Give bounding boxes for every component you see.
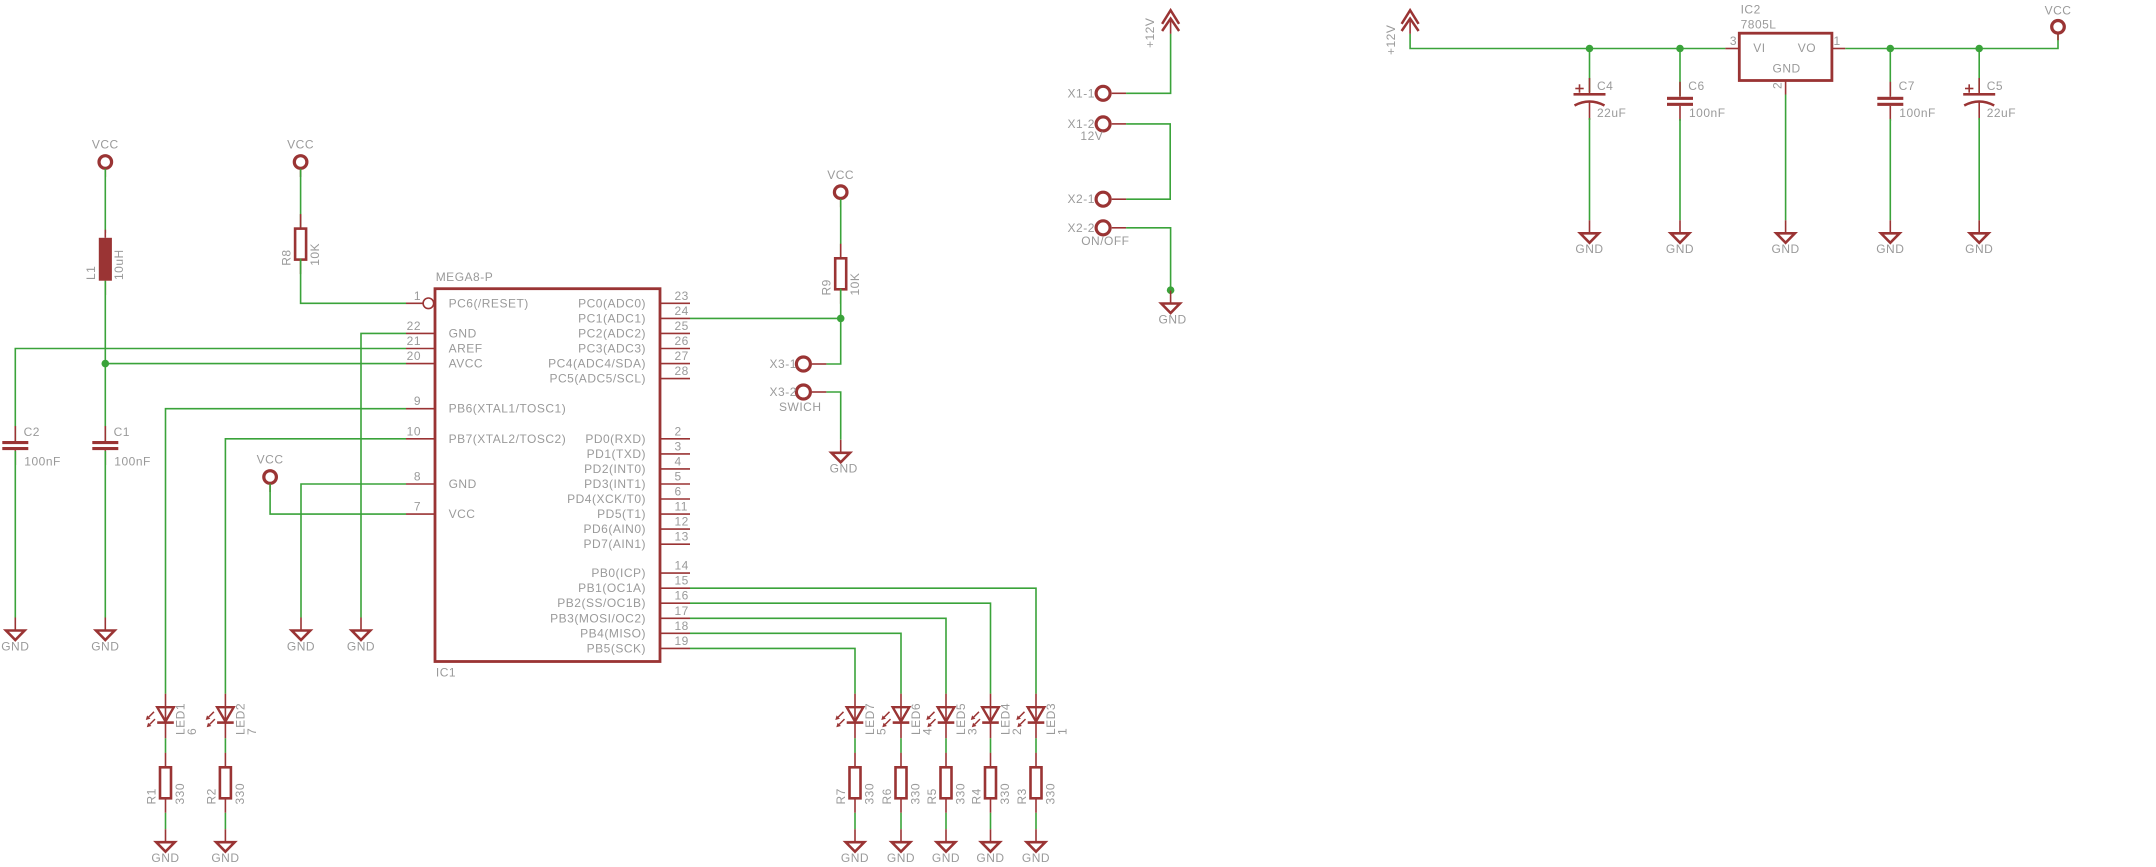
wire R5 to GND [945, 813, 947, 829]
svg-text:C1: C1 [114, 425, 130, 439]
svg-text:R4: R4 [970, 788, 984, 804]
capacitor C4 (polarized) [1574, 78, 1627, 120]
svg-text:7: 7 [414, 500, 421, 514]
svg-text:VI: VI [1753, 41, 1765, 55]
wire R6 to GND [900, 813, 902, 829]
wire VCC to R9 [840, 199, 842, 258]
wire L1 to C1 and AVCC node [104, 281, 106, 441]
capacitor C5 (polarized) [1963, 78, 2016, 120]
svg-text:L1: L1 [84, 266, 98, 280]
svg-text:VCC: VCC [827, 168, 854, 182]
svg-text:8: 8 [414, 470, 421, 484]
svg-text:5: 5 [875, 728, 889, 735]
svg-text:100nF: 100nF [1899, 106, 1936, 120]
svg-text:3: 3 [675, 439, 682, 453]
svg-text:C2: C2 [24, 425, 40, 439]
svg-text:3: 3 [966, 728, 980, 735]
svg-text:PB6(XTAL1/TOSC1): PB6(XTAL1/TOSC1) [449, 402, 567, 416]
capacitor C7 [1877, 79, 1936, 121]
svg-text:GND: GND [830, 462, 858, 476]
ground under C7 [1876, 220, 1904, 256]
wire VCC to L1 [104, 169, 106, 233]
svg-text:PB5(SCK): PB5(SCK) [587, 641, 646, 655]
wire C2 to GND [14, 451, 16, 618]
svg-text:10: 10 [407, 424, 421, 438]
svg-text:330: 330 [863, 783, 877, 805]
svg-text:22uF: 22uF [1597, 106, 1626, 120]
ground under C2 [1, 618, 29, 654]
ground under R7 [841, 829, 869, 865]
svg-text:20: 20 [407, 349, 421, 363]
svg-text:GND: GND [287, 639, 315, 653]
svg-text:10uH: 10uH [112, 249, 126, 280]
node junction C5 [1975, 45, 1983, 53]
resistor R8 [280, 214, 323, 274]
svg-text:PC3(ADC3): PC3(ADC3) [578, 342, 646, 356]
svg-text:IC2: IC2 [1741, 2, 1761, 16]
node junction C7 [1887, 45, 1895, 53]
svg-text:AVCC: AVCC [449, 357, 483, 371]
supply +12V (X1-1 net) [1143, 10, 1179, 48]
svg-text:GND: GND [1772, 242, 1800, 256]
svg-text:X1-1: X1-1 [1068, 86, 1095, 100]
wire rail to C6 [1679, 49, 1681, 97]
supply VCC (to IC1 pin 7) [257, 453, 284, 492]
svg-text:GND: GND [1876, 242, 1904, 256]
connector pad X3-2 [770, 385, 827, 399]
IC1 pin 25 PC2(ADC2) [578, 319, 690, 341]
resistor R1 [145, 753, 188, 813]
svg-text:PC0(ADC0): PC0(ADC0) [578, 296, 646, 310]
IC2 pin 1 VO [1832, 34, 1845, 49]
wire rail to C5 [1978, 49, 1980, 93]
wire IC2 VO to VCC [1845, 33, 2058, 48]
resistor R6 [880, 753, 923, 813]
wire X1-1 to +12V [1126, 34, 1171, 93]
supply VCC (regulator output) [2045, 4, 2072, 41]
node junction R9/X3-1/PC1 [837, 315, 845, 323]
wire IC1 pin 18 to LED6 [690, 633, 901, 693]
voltage regulator IC2 7805L [1739, 2, 1832, 80]
wire IC1 pin 16 to LED4 [690, 603, 991, 694]
IC1 pin 8 GND [406, 470, 477, 492]
svg-text:25: 25 [675, 319, 689, 333]
IC1 pin 15 PB1(OC1A) [578, 574, 690, 596]
IC1 pin 7 VCC [406, 500, 475, 521]
wire C1 to GND [104, 451, 106, 618]
connector pad X3-1 [770, 357, 827, 371]
svg-text:17: 17 [675, 604, 689, 618]
ground under X3-2 net [830, 440, 858, 476]
svg-text:PD0(RXD): PD0(RXD) [585, 432, 646, 446]
svg-text:330: 330 [954, 783, 968, 805]
svg-text:6: 6 [675, 485, 682, 499]
svg-text:GND: GND [1575, 242, 1603, 256]
svg-text:PC1(ADC1): PC1(ADC1) [578, 311, 646, 325]
svg-text:MEGA8-P: MEGA8-P [436, 270, 494, 284]
IC1 pin 18 PB4(MISO) [580, 619, 690, 641]
svg-text:21: 21 [407, 334, 421, 348]
svg-text:18: 18 [675, 619, 689, 633]
wire IC1 pin 8 to GND [301, 484, 406, 618]
IC1 pin 13 PD7(AIN1) [583, 530, 690, 552]
ground under R2 [211, 829, 239, 865]
svg-text:X2-1: X2-1 [1068, 192, 1095, 206]
LED LED2 [206, 694, 259, 739]
wire R7 to GND [854, 813, 856, 829]
svg-text:PB4(MISO): PB4(MISO) [580, 626, 646, 640]
svg-text:VCC: VCC [449, 507, 476, 521]
LED LED5 [926, 694, 979, 739]
wire VCC to R8 [300, 169, 302, 229]
node junction AVCC [102, 360, 110, 368]
IC1 pin 23 PC0(ADC0) [578, 289, 690, 311]
IC1 pin 22 GND [406, 319, 477, 341]
IC1 pin 19 PB5(SCK) [587, 634, 690, 656]
connector pad X2-2 [1068, 221, 1127, 235]
svg-text:330: 330 [998, 783, 1012, 805]
IC1 pin 12 PD6(AIN0) [583, 515, 690, 537]
wire IC1 pin 10 to LED2 [225, 439, 406, 694]
ground under R3 [1022, 829, 1050, 865]
wire LED3 to R3 [1035, 738, 1037, 753]
svg-text:SWICH: SWICH [779, 400, 822, 414]
svg-text:PD2(INT0): PD2(INT0) [584, 462, 646, 476]
connector pad X2-1 [1068, 192, 1127, 206]
svg-text:C4: C4 [1597, 79, 1613, 93]
svg-text:28: 28 [675, 364, 689, 378]
supply VCC (to L1) [92, 138, 119, 177]
svg-text:PB2(SS/OC1B): PB2(SS/OC1B) [557, 596, 646, 610]
svg-text:VCC: VCC [2045, 4, 2072, 18]
resistor R4 [970, 753, 1013, 813]
svg-text:GND: GND [841, 851, 869, 865]
svg-text:VCC: VCC [257, 453, 284, 467]
svg-text:2: 2 [1010, 728, 1024, 735]
svg-text:330: 330 [173, 783, 187, 805]
capacitor C6 [1667, 79, 1726, 121]
svg-text:PB3(MOSI/OC2): PB3(MOSI/OC2) [550, 611, 646, 625]
svg-text:PD4(XCK/T0): PD4(XCK/T0) [567, 492, 646, 506]
svg-text:27: 27 [675, 349, 689, 363]
svg-text:PC6(/RESET): PC6(/RESET) [449, 296, 529, 310]
IC1 pin 16 PB2(SS/OC1B) [557, 589, 690, 611]
svg-text:GND: GND [1773, 61, 1801, 75]
svg-text:VCC: VCC [92, 138, 119, 152]
svg-text:14: 14 [675, 559, 689, 573]
svg-text:PD5(T1): PD5(T1) [597, 507, 646, 521]
IC1 pin 2 PD0(RXD) [585, 424, 690, 446]
inductor L1 [84, 230, 126, 295]
svg-text:3: 3 [1730, 34, 1737, 48]
ground under IC1 pin 22 net [347, 618, 375, 654]
wire +12V to IC2 VI [1410, 34, 1725, 49]
svg-text:R7: R7 [834, 788, 848, 804]
svg-text:X2-2: X2-2 [1068, 221, 1095, 235]
wire IC1 pin 19 to LED7 [690, 648, 855, 693]
ground under R1 [151, 829, 179, 865]
wire IC1 pin 9 to LED1 [166, 409, 407, 694]
wire R4 to GND [990, 813, 992, 829]
svg-text:7: 7 [245, 728, 259, 735]
svg-text:R6: R6 [880, 788, 894, 804]
wire LED2 to R2 [224, 738, 226, 753]
svg-text:15: 15 [675, 574, 689, 588]
svg-text:X3-1: X3-1 [770, 357, 797, 371]
wire X2-2 to GND [1126, 228, 1171, 290]
supply VCC (to R8) [287, 138, 314, 177]
svg-text:24: 24 [675, 304, 689, 318]
svg-text:2: 2 [1771, 82, 1785, 89]
ground under C5 [1965, 220, 1993, 256]
wire IC1 pin 15 to LED3 [690, 588, 1036, 694]
wire LED6 to R6 [900, 738, 902, 753]
svg-text:C7: C7 [1899, 79, 1915, 93]
IC1 pin 1 PC6(/RESET) [406, 289, 529, 311]
IC2 pin 3 VI [1725, 34, 1739, 49]
wire AVCC node to IC1 pin 20 [105, 363, 406, 365]
wire X3-2 to GND [826, 392, 840, 440]
IC1 pin 21 AREF [406, 334, 483, 356]
svg-text:PD7(AIN1): PD7(AIN1) [583, 537, 646, 551]
svg-text:R3: R3 [1015, 788, 1029, 804]
svg-text:PC4(ADC4/SDA): PC4(ADC4/SDA) [548, 357, 646, 371]
IC1 pin 9 PB6(XTAL1/TOSC1) [406, 394, 566, 416]
svg-text:ON/OFF: ON/OFF [1081, 234, 1129, 248]
svg-text:9: 9 [414, 394, 421, 408]
svg-text:GND: GND [1, 639, 29, 653]
wire C7 to GND [1889, 119, 1891, 220]
svg-text:+12V: +12V [1143, 18, 1157, 48]
svg-text:26: 26 [675, 334, 689, 348]
svg-text:4: 4 [921, 728, 935, 735]
svg-text:GND: GND [211, 851, 239, 865]
svg-text:22uF: 22uF [1987, 106, 2016, 120]
resistor R3 [1015, 753, 1058, 813]
LED LED7 [835, 694, 888, 739]
svg-text:10K: 10K [308, 243, 322, 266]
wire R9 bottom to X3-1 [826, 289, 840, 364]
svg-text:GND: GND [976, 851, 1004, 865]
supply +12V (regulator input) [1384, 10, 1419, 55]
IC1 pin 28 PC5(ADC5/SCL) [549, 364, 690, 386]
connector pad X1-1 [1068, 86, 1127, 100]
ground under C1 [91, 618, 119, 654]
svg-text:GND: GND [449, 326, 477, 340]
wire rail to C4 [1589, 49, 1591, 93]
ground under IC1 pin 8 net [287, 618, 315, 654]
IC1 pin 17 PB3(MOSI/OC2) [550, 604, 690, 626]
wire R8 to IC1 pin 1 [301, 259, 406, 304]
IC1 pin 24 PC1(ADC1) [578, 304, 690, 326]
ground under R5 [932, 829, 960, 865]
wire IC1 pin 21 AREF to C2 [15, 349, 406, 442]
svg-text:330: 330 [909, 783, 923, 805]
IC1 pin 3 PD1(TXD) [587, 439, 690, 461]
svg-text:GND: GND [1666, 242, 1694, 256]
svg-text:5: 5 [675, 470, 682, 484]
IC1 pin 10 PB7(XTAL2/TOSC2) [406, 424, 566, 446]
IC1 pin 26 PC3(ADC3) [578, 334, 690, 356]
node junction C4 [1586, 45, 1594, 53]
wire R2 to GND [224, 813, 226, 829]
svg-text:R8: R8 [280, 249, 294, 265]
svg-text:PC2(ADC2): PC2(ADC2) [578, 326, 646, 340]
IC1 pin 27 PC4(ADC4/SDA) [548, 349, 690, 371]
svg-text:R5: R5 [925, 788, 939, 804]
svg-text:R9: R9 [820, 279, 834, 295]
wire LED1 to R1 [165, 738, 167, 753]
svg-text:PC5(ADC5/SCL): PC5(ADC5/SCL) [549, 372, 646, 386]
svg-text:PB7(XTAL2/TOSC2): PB7(XTAL2/TOSC2) [449, 432, 567, 446]
wire IC1 pin 22 to GND [361, 333, 406, 617]
connector pad X1-2 [1068, 117, 1127, 131]
supply VCC (to R9) [827, 168, 854, 207]
ground under C4 [1575, 220, 1603, 256]
LED LED4 [971, 694, 1024, 739]
node junction C6 [1676, 45, 1684, 53]
capacitor C1 [92, 425, 151, 468]
svg-text:C6: C6 [1688, 79, 1704, 93]
svg-text:100nF: 100nF [1689, 106, 1726, 120]
svg-text:+12V: +12V [1384, 25, 1398, 55]
IC1 pin 11 PD5(T1) [597, 500, 690, 521]
resistor R9 [820, 244, 863, 304]
svg-text:7805L: 7805L [1741, 18, 1777, 32]
ground under IC2 [1772, 220, 1800, 256]
svg-text:GND: GND [91, 639, 119, 653]
wire R3 to GND [1035, 813, 1037, 829]
svg-text:R2: R2 [204, 788, 218, 804]
svg-text:19: 19 [675, 634, 689, 648]
svg-text:16: 16 [675, 589, 689, 603]
svg-text:4: 4 [675, 454, 682, 468]
svg-text:AREF: AREF [449, 342, 483, 356]
svg-text:12: 12 [675, 515, 689, 529]
svg-text:PB1(OC1A): PB1(OC1A) [578, 581, 646, 595]
svg-text:GND: GND [1022, 851, 1050, 865]
wire C5 to GND [1978, 118, 1980, 220]
svg-text:2: 2 [675, 424, 682, 438]
svg-text:PB0(ICP): PB0(ICP) [591, 566, 646, 580]
ground under X2-2 net [1159, 291, 1187, 327]
svg-text:GND: GND [1159, 312, 1187, 326]
ground under C6 [1666, 220, 1694, 256]
svg-text:23: 23 [675, 289, 689, 303]
wire R1 to GND [165, 813, 167, 829]
svg-text:PD6(AIN0): PD6(AIN0) [583, 522, 646, 536]
svg-text:1: 1 [1834, 34, 1841, 48]
wire LED4 to R4 [990, 738, 992, 753]
wire IC1 pin 17 to LED5 [690, 618, 946, 693]
svg-text:13: 13 [675, 530, 689, 544]
LED LED3 [1016, 694, 1069, 739]
svg-text:1: 1 [1056, 728, 1070, 735]
LED LED1 [146, 694, 199, 739]
svg-text:10K: 10K [848, 273, 862, 296]
wire VCC to IC1 pin 7 [270, 484, 406, 514]
svg-text:PD3(INT1): PD3(INT1) [584, 477, 646, 491]
IC1 pin 5 PD3(INT1) [584, 470, 690, 492]
svg-text:100nF: 100nF [114, 454, 151, 468]
IC1 pin 6 PD4(XCK/T0) [567, 485, 690, 507]
svg-text:R1: R1 [145, 788, 159, 804]
svg-text:C5: C5 [1987, 79, 2003, 93]
IC1 pin 4 PD2(INT0) [584, 454, 690, 476]
resistor R5 [925, 753, 968, 813]
wire IC2 GND pin to GND [1785, 95, 1787, 221]
ground under R4 [976, 829, 1004, 865]
svg-text:GND: GND [449, 477, 477, 491]
svg-text:GND: GND [1965, 242, 1993, 256]
wire X1-2 to X2-1 [1126, 124, 1170, 199]
svg-text:100nF: 100nF [24, 454, 61, 468]
wire C4 to GND [1589, 118, 1591, 220]
ground under R6 [887, 829, 915, 865]
svg-text:330: 330 [233, 783, 247, 805]
svg-text:11: 11 [675, 500, 688, 514]
wire rail to C7 [1889, 49, 1891, 97]
svg-text:VCC: VCC [287, 138, 314, 152]
svg-text:330: 330 [1044, 783, 1058, 805]
svg-text:GND: GND [887, 851, 915, 865]
IC1 pin 14 PB0(ICP) [591, 559, 690, 581]
capacitor C2 [2, 425, 61, 468]
wire LED7 to R7 [854, 738, 856, 753]
svg-text:22: 22 [407, 319, 421, 333]
wire IC1 pin 24 to R9 node [690, 317, 841, 319]
IC ATmega8 U IC1 MEGA8-P [435, 270, 660, 680]
svg-text:GND: GND [347, 639, 375, 653]
IC2 pin 2 GND [1771, 81, 1786, 95]
resistor R7 [834, 753, 877, 813]
svg-text:12V: 12V [1080, 129, 1103, 143]
svg-text:1: 1 [414, 289, 421, 303]
wire LED5 to R5 [945, 738, 947, 753]
IC1 pin 20 AVCC [406, 349, 483, 371]
svg-text:GND: GND [151, 851, 179, 865]
svg-text:X3-2: X3-2 [770, 385, 797, 399]
node junction GND (X2-2 net) [1167, 286, 1175, 294]
LED LED6 [881, 694, 934, 739]
svg-text:PD1(TXD): PD1(TXD) [587, 447, 646, 461]
svg-text:IC1: IC1 [436, 666, 456, 680]
resistor R2 [204, 753, 247, 813]
wire C6 to GND [1679, 119, 1681, 220]
svg-text:GND: GND [932, 851, 960, 865]
svg-text:6: 6 [185, 728, 199, 735]
svg-text:VO: VO [1798, 41, 1816, 55]
